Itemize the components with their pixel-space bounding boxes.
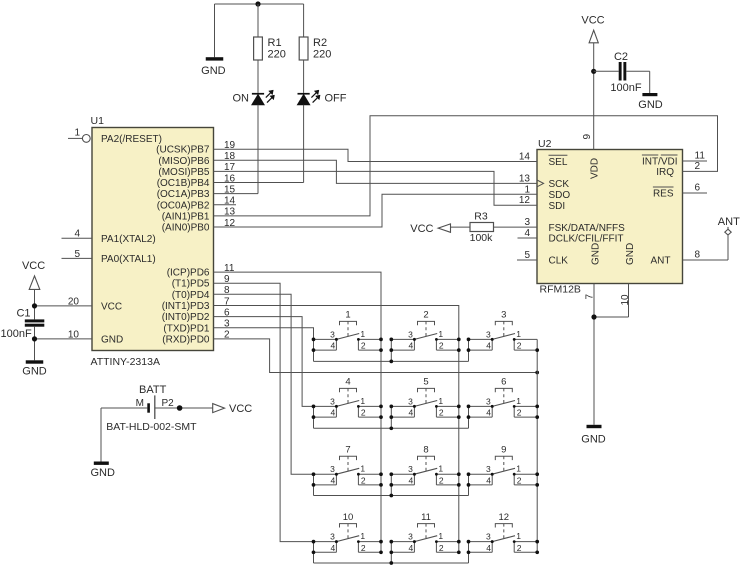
svg-text:4: 4 [330, 476, 335, 486]
svg-text:4: 4 [408, 476, 413, 486]
svg-text:PA2(/RESET): PA2(/RESET) [101, 134, 162, 145]
svg-text:PA0(XTAL1): PA0(XTAL1) [101, 254, 156, 265]
svg-text:(T0)PD4: (T0)PD4 [172, 290, 210, 301]
svg-text:1: 1 [360, 464, 365, 474]
svg-text:4: 4 [408, 408, 413, 418]
svg-text:4: 4 [330, 543, 335, 553]
svg-text:C2: C2 [614, 51, 628, 63]
svg-text:(MOSI)PB5: (MOSI)PB5 [158, 167, 210, 178]
svg-text:2: 2 [517, 341, 522, 351]
svg-text:SEL: SEL [549, 157, 568, 168]
svg-text:4: 4 [330, 408, 335, 418]
svg-text:4: 4 [408, 543, 413, 553]
svg-text:4: 4 [408, 341, 413, 351]
svg-text:1: 1 [360, 531, 365, 541]
svg-text:11: 11 [695, 151, 706, 162]
svg-text:2: 2 [423, 310, 428, 321]
svg-text:CLK: CLK [549, 256, 569, 267]
svg-text:GND: GND [90, 467, 115, 479]
svg-text:(OC1A)PB3: (OC1A)PB3 [157, 189, 210, 200]
svg-text:2: 2 [361, 543, 366, 553]
svg-text:1: 1 [516, 396, 521, 406]
svg-text:1: 1 [516, 464, 521, 474]
svg-text:GND: GND [201, 65, 226, 77]
svg-text:VCC: VCC [101, 301, 122, 312]
svg-text:5: 5 [74, 249, 80, 260]
svg-text:4: 4 [486, 408, 491, 418]
svg-text:VDD: VDD [590, 158, 601, 179]
svg-text:GND: GND [625, 243, 636, 265]
svg-text:FSK/DATA/NFFS: FSK/DATA/NFFS [549, 223, 626, 234]
svg-text:2: 2 [517, 543, 522, 553]
svg-text:100k: 100k [470, 232, 494, 244]
svg-text:GND: GND [638, 99, 663, 111]
svg-text:SDI: SDI [549, 201, 566, 212]
svg-text:BATT: BATT [139, 384, 167, 396]
svg-text:2: 2 [695, 161, 701, 172]
svg-text:2: 2 [517, 408, 522, 418]
svg-text:12: 12 [519, 195, 531, 206]
svg-text:4: 4 [524, 228, 530, 239]
svg-text:2: 2 [439, 408, 444, 418]
svg-text:(OC1B)PB4: (OC1B)PB4 [157, 178, 210, 189]
svg-text:4: 4 [345, 377, 350, 388]
svg-text:GND: GND [101, 334, 123, 345]
svg-text:INT/VDI: INT/VDI [642, 157, 678, 168]
svg-text:2: 2 [517, 476, 522, 486]
svg-text:(RXD)PD0: (RXD)PD0 [162, 334, 210, 345]
svg-text:5: 5 [423, 377, 428, 388]
svg-text:VCC: VCC [229, 403, 252, 415]
svg-text:(INT1)PD3: (INT1)PD3 [162, 301, 210, 312]
svg-text:3: 3 [408, 532, 413, 542]
svg-text:12: 12 [499, 512, 510, 523]
svg-text:5: 5 [524, 250, 530, 261]
svg-text:3: 3 [330, 396, 335, 406]
svg-text:10: 10 [620, 294, 631, 306]
svg-text:3: 3 [408, 396, 413, 406]
svg-text:U2: U2 [538, 138, 552, 150]
svg-text:(AIN0)PB0: (AIN0)PB0 [162, 223, 210, 234]
svg-text:3: 3 [330, 329, 335, 339]
svg-text:1: 1 [516, 531, 521, 541]
svg-text:R1: R1 [268, 37, 282, 49]
svg-text:10: 10 [68, 329, 80, 340]
svg-text:VCC: VCC [22, 260, 45, 272]
svg-text:PA1(XTAL2): PA1(XTAL2) [101, 234, 156, 245]
svg-text:14: 14 [519, 152, 531, 163]
svg-text:13: 13 [519, 173, 531, 184]
svg-text:2: 2 [439, 476, 444, 486]
svg-text:SDO: SDO [549, 190, 571, 201]
svg-text:2: 2 [439, 341, 444, 351]
svg-text:(INT0)PD2: (INT0)PD2 [162, 312, 210, 323]
svg-text:8: 8 [695, 250, 701, 261]
svg-text:SCK: SCK [549, 179, 570, 190]
svg-text:100nF: 100nF [610, 82, 641, 94]
svg-text:1: 1 [524, 184, 530, 195]
svg-text:2: 2 [439, 543, 444, 553]
svg-text:DCLK/CFIL/FFIT: DCLK/CFIL/FFIT [549, 234, 624, 245]
svg-text:20: 20 [68, 297, 80, 308]
svg-text:2: 2 [361, 408, 366, 418]
svg-text:(ICP)PD6: (ICP)PD6 [167, 268, 210, 279]
svg-text:RES: RES [653, 189, 674, 200]
svg-text:ANT: ANT [651, 256, 671, 267]
svg-text:U1: U1 [91, 115, 105, 127]
svg-text:GND: GND [581, 434, 606, 446]
svg-text:(AIN1)PB1: (AIN1)PB1 [162, 211, 210, 222]
svg-text:1: 1 [360, 329, 365, 339]
svg-text:ATTINY-2313A: ATTINY-2313A [91, 356, 160, 368]
svg-text:220: 220 [313, 49, 331, 61]
svg-text:220: 220 [268, 49, 286, 61]
svg-text:9: 9 [501, 444, 506, 455]
svg-text:OFF: OFF [325, 93, 347, 105]
svg-text:4: 4 [486, 476, 491, 486]
svg-text:10: 10 [343, 512, 354, 523]
svg-text:1: 1 [360, 396, 365, 406]
svg-text:ANT: ANT [718, 216, 740, 228]
svg-text:3: 3 [330, 532, 335, 542]
svg-text:GND: GND [591, 243, 602, 265]
svg-text:P2: P2 [162, 398, 175, 409]
svg-text:(T1)PD5: (T1)PD5 [172, 279, 210, 290]
svg-text:BAT-HLD-002-SMT: BAT-HLD-002-SMT [106, 421, 197, 433]
svg-text:M: M [136, 398, 144, 409]
svg-text:6: 6 [501, 377, 506, 388]
svg-text:7: 7 [345, 444, 350, 455]
svg-text:4: 4 [486, 543, 491, 553]
svg-text:6: 6 [695, 183, 701, 194]
svg-text:3: 3 [524, 217, 530, 228]
svg-text:3: 3 [486, 532, 491, 542]
svg-text:1: 1 [438, 396, 443, 406]
svg-text:RFM12B: RFM12B [540, 283, 581, 295]
svg-text:(MISO)PB6: (MISO)PB6 [158, 156, 210, 167]
svg-text:1: 1 [438, 464, 443, 474]
svg-text:3: 3 [486, 396, 491, 406]
svg-text:(OC0A)PB2: (OC0A)PB2 [157, 200, 210, 211]
svg-text:VCC: VCC [581, 15, 604, 27]
svg-text:3: 3 [486, 329, 491, 339]
svg-text:1: 1 [74, 128, 80, 139]
svg-text:4: 4 [74, 229, 80, 240]
svg-text:3: 3 [408, 329, 413, 339]
svg-text:R2: R2 [313, 37, 327, 49]
svg-text:3: 3 [486, 464, 491, 474]
svg-text:4: 4 [330, 341, 335, 351]
svg-text:VCC: VCC [410, 223, 433, 235]
svg-text:1: 1 [438, 329, 443, 339]
svg-text:3: 3 [330, 464, 335, 474]
svg-text:1: 1 [345, 310, 350, 321]
svg-text:2: 2 [361, 476, 366, 486]
svg-text:(TXD)PD1: (TXD)PD1 [163, 323, 210, 334]
svg-text:R3: R3 [474, 211, 488, 223]
svg-text:3: 3 [501, 310, 506, 321]
svg-text:IRQ: IRQ [656, 167, 674, 178]
svg-text:GND: GND [22, 366, 47, 378]
svg-text:100nF: 100nF [1, 328, 32, 340]
svg-text:2: 2 [361, 341, 366, 351]
svg-text:1: 1 [516, 329, 521, 339]
svg-text:1: 1 [438, 531, 443, 541]
svg-text:(UCSK)PB7: (UCSK)PB7 [156, 145, 210, 156]
svg-text:9: 9 [582, 134, 593, 140]
svg-text:C1: C1 [16, 308, 30, 320]
svg-text:11: 11 [421, 512, 431, 523]
svg-text:3: 3 [408, 464, 413, 474]
svg-text:ON: ON [233, 93, 250, 105]
svg-text:4: 4 [486, 341, 491, 351]
svg-text:8: 8 [423, 444, 428, 455]
